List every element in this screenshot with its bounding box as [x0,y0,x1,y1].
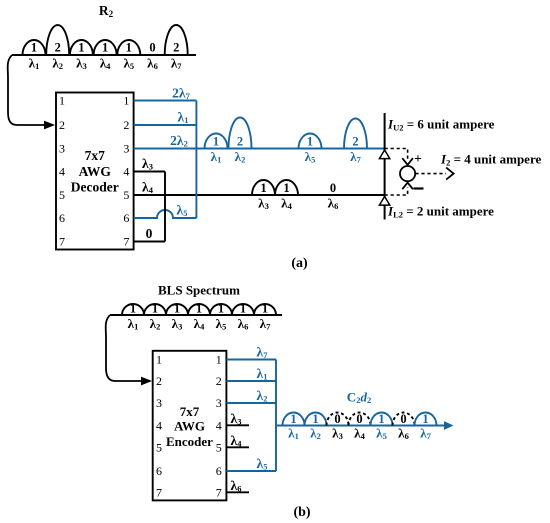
dashed wire lower to subtractor [385,188,408,196]
svg-text:λ5: λ5 [376,426,387,442]
svg-text:3: 3 [156,396,162,410]
svg-text:λ1: λ1 [288,426,299,442]
svg-text:λ1: λ1 [257,366,268,382]
svg-text:λ7: λ7 [420,426,431,442]
svg-text:2: 2 [156,374,162,388]
spectrum A hump lambda7 value 2 [165,25,188,55]
svg-text:1: 1 [260,181,266,195]
svg-text:1: 1 [240,302,246,316]
svg-text:λ3: λ3 [258,196,269,212]
bus B hump lambda6 value 0 dashed [393,413,415,426]
svg-text:6: 6 [123,211,129,225]
svg-text:Encoder: Encoder [166,434,213,449]
svg-text:IL2 = 2 unit ampere: IL2 = 2 unit ampere [387,204,494,220]
svg-text:7: 7 [216,485,222,499]
wire encoder port1 blue [226,359,276,361]
svg-text:λ4: λ4 [194,316,205,332]
svg-text:AWG: AWG [174,419,205,434]
svg-text:λ6: λ6 [231,478,242,494]
svg-text:BLS Spectrum: BLS Spectrum [158,283,240,298]
svg-text:λ6: λ6 [328,196,339,212]
minus sign [414,187,424,189]
svg-text:1: 1 [378,412,384,426]
svg-text:1: 1 [59,94,65,108]
svg-text:2: 2 [123,118,129,132]
svg-text:λ5: λ5 [177,203,188,219]
photodiode D2 triangle [379,197,389,206]
svg-text:2: 2 [352,135,358,149]
svg-text:1: 1 [290,412,296,426]
dashed wire upper to subtractor [385,149,408,160]
spectrum B hump lambda3 value 1 [166,304,188,315]
spectrum B baseline [110,314,282,316]
dashed output wire I2 [415,173,446,175]
output arrowhead [446,168,453,180]
svg-text:0: 0 [330,181,336,195]
spectrum B hump lambda2 value 1 [144,304,166,315]
svg-text:6: 6 [216,464,222,478]
wire encoder port2 blue [226,380,276,382]
svg-text:1: 1 [218,302,224,316]
svg-text:λ6: λ6 [147,56,158,72]
svg-text:λ7: λ7 [350,149,361,165]
svg-text:0: 0 [400,412,406,426]
wire encoder port7 stub black [226,491,249,493]
svg-text:λ7: λ7 [257,345,269,361]
svg-text:1: 1 [130,302,136,316]
svg-text:0: 0 [149,41,155,55]
svg-text:1: 1 [126,41,132,55]
svg-text:4: 4 [59,165,65,179]
bus B hump lambda7 value 1 blue [415,413,437,426]
svg-text:5: 5 [123,188,129,202]
arrowhead into subtractor bottom [402,183,413,190]
svg-text:λ7: λ7 [171,56,182,72]
bus B hump lambda3 value 0 dashed [327,413,349,426]
spectrum B hump lambda7 value 1 [254,304,276,315]
svg-text:0: 0 [356,412,362,426]
svg-text:5: 5 [59,188,65,202]
decoder left pin numbers 1-7 [59,94,65,249]
spectrum B hump lambda6 value 1 [232,304,254,315]
svg-text:1: 1 [422,412,428,426]
svg-text:6: 6 [59,211,65,225]
svg-text:0: 0 [334,412,340,426]
svg-text:1: 1 [213,135,219,149]
decoder right pin numbers 1-7 [123,94,129,249]
svg-text:(b): (b) [293,505,310,520]
svg-text:1: 1 [216,353,222,367]
wire decoder port2 blue [134,124,197,126]
wire decoder port4 black [134,171,165,173]
svg-text:1: 1 [123,94,129,108]
svg-text:1: 1 [174,302,180,316]
wire decoder port5 black bus [134,194,385,196]
svg-text:λ5: λ5 [216,316,227,332]
svg-text:λ5: λ5 [257,456,268,472]
wire decoder port6 blue with hop [134,210,197,218]
svg-text:1: 1 [102,41,108,55]
svg-text:λ4: λ4 [231,433,243,449]
bus A hump lambda1 value 1 blue [205,134,228,149]
wire black vertical join [164,172,166,242]
svg-text:Decoder: Decoder [71,180,119,195]
output bus B blue [276,425,446,427]
svg-text:λ4: λ4 [142,180,154,196]
svg-text:λ7: λ7 [260,316,271,332]
svg-text:C2d2: C2d2 [347,390,371,406]
svg-text:λ2: λ2 [257,388,268,404]
svg-text:λ4: λ4 [281,196,292,212]
PART B [106,283,454,521]
bus A hump lambda4 value 1 black [275,180,298,195]
bus B hump lambda2 value 1 blue [305,413,327,426]
svg-text:1: 1 [307,135,313,149]
bus B hump lambda4 value 0 dashed [349,413,371,426]
svg-text:1: 1 [283,181,289,195]
svg-text:AWG: AWG [79,164,112,179]
svg-text:λ2: λ2 [310,426,321,442]
wire encoder port5 stub black [226,446,249,448]
wire decoder port7 black [134,241,165,243]
svg-text:1: 1 [78,41,84,55]
wire blue vertical join [195,101,197,219]
svg-text:2λ2: 2λ2 [170,133,188,149]
svg-text:λ2: λ2 [235,149,246,165]
bus B hump lambda1 value 1 blue [283,413,305,426]
svg-text:2: 2 [216,374,222,388]
encoder left pin numbers 1-7 [156,353,162,500]
wire encoder port3 blue [226,402,276,404]
svg-text:2: 2 [59,118,65,132]
PART A [8,3,542,271]
svg-text:7x7: 7x7 [85,148,106,163]
spectrum B hump lambda1 value 1 [122,304,144,315]
svg-text:2: 2 [173,41,179,55]
arrowhead into subtractor top [402,158,413,165]
svg-text:λ3: λ3 [76,56,87,72]
decoder box U1 [56,93,134,250]
svg-text:7x7: 7x7 [180,404,200,419]
spectrum A hump lambda2 value 2 [46,25,69,55]
svg-text:+: + [414,151,422,166]
wire decoder port1 blue [134,100,197,102]
svg-text:I2 = 4 unit ampere: I2 = 4 unit ampere [440,152,541,168]
svg-text:6: 6 [156,464,162,478]
wire decoder port3 blue bus [134,148,385,150]
svg-text:2: 2 [237,135,243,149]
bus A hump lambda7 value 2 blue [344,119,367,149]
svg-text:λ4: λ4 [100,56,111,72]
svg-text:R2: R2 [99,3,114,19]
svg-text:IU2 = 6 unit ampere: IU2 = 6 unit ampere [387,117,495,133]
svg-text:3: 3 [123,142,129,156]
svg-text:λ3: λ3 [332,426,343,442]
svg-text:λ2: λ2 [52,56,63,72]
spectrum B hump lambda5 value 1 [210,304,232,315]
bus A hump lambda3 value 1 black [252,180,275,195]
svg-text:λ5: λ5 [305,149,316,165]
subtractor circle [400,166,415,181]
input arrow A [8,55,45,125]
spectrum A hump lambda1 value 1 [23,40,46,55]
svg-text:λ6: λ6 [398,426,409,442]
bus A hump lambda5 value 1 blue [299,134,322,149]
output bus arrowhead blue [444,421,454,430]
photodiode bias line vertical [384,113,386,220]
spectrum A hump lambda4 value 1 [94,40,117,55]
svg-text:λ6: λ6 [238,316,249,332]
spectrum A hump lambda3 value 1 [70,40,93,55]
wire blue vertical join B [275,360,277,472]
svg-text:1: 1 [156,353,162,367]
svg-text:λ1: λ1 [128,316,139,332]
svg-text:1: 1 [152,302,158,316]
svg-text:3: 3 [216,396,222,410]
bus B hump lambda5 value 1 blue [371,413,393,426]
svg-text:λ4: λ4 [354,426,365,442]
svg-text:7: 7 [156,485,162,499]
svg-text:7: 7 [59,235,65,249]
svg-text:2: 2 [55,41,61,55]
svg-text:4: 4 [123,165,129,179]
input arrow B [106,315,141,381]
svg-text:3: 3 [59,142,65,156]
svg-text:λ3: λ3 [231,411,242,427]
svg-text:λ1: λ1 [178,110,189,126]
svg-text:5: 5 [216,440,222,454]
svg-text:1: 1 [196,302,202,316]
bus A hump lambda2 value 2 blue [229,117,252,148]
svg-text:λ3: λ3 [172,316,183,332]
svg-text:4: 4 [156,418,162,432]
svg-text:λ2: λ2 [150,316,161,332]
svg-text:λ1: λ1 [211,149,222,165]
svg-text:λ5: λ5 [123,56,134,72]
encoder box U2 [153,351,227,501]
svg-text:2λ7: 2λ7 [172,86,190,102]
svg-text:1: 1 [31,41,37,55]
svg-text:λ1: λ1 [29,56,40,72]
svg-text:1: 1 [312,412,318,426]
svg-text:1: 1 [262,302,268,316]
svg-text:4: 4 [216,418,222,432]
svg-text:(a): (a) [291,256,308,271]
wire encoder port6 blue [226,470,276,472]
spectrum B hump lambda4 value 1 [188,304,210,315]
svg-text:λ3: λ3 [142,156,153,172]
spectrum A hump lambda5 value 1 [117,40,140,55]
spectrum A baseline [12,54,196,56]
svg-text:5: 5 [156,440,162,454]
svg-text:0: 0 [146,226,153,241]
wire encoder port4 stub black [226,424,249,426]
svg-text:7: 7 [123,235,129,249]
encoder right pin numbers 1-7 [216,353,222,500]
photodiode D1 triangle [379,150,389,159]
